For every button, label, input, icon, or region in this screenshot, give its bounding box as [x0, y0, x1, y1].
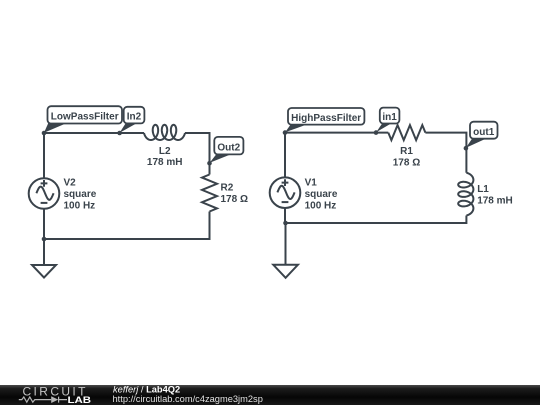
svg-text:LowPassFilter: LowPassFilter — [51, 112, 119, 123]
footer bar — [0, 385, 540, 405]
svg-text:kefferj / Lab4Q2: kefferj / Lab4Q2 — [113, 384, 180, 394]
junction dot Out2 node — [207, 161, 212, 166]
junction dot left top-left node — [42, 131, 47, 136]
junction dot out1 node — [464, 146, 469, 151]
svg-text:out1: out1 — [473, 127, 495, 138]
inductor L2 — [144, 125, 185, 168]
voltage source V2 — [29, 177, 97, 211]
svg-text:Out2: Out2 — [217, 142, 240, 153]
wire V1 bottom lead — [284, 208, 286, 223]
node in1 label — [376, 108, 399, 133]
inductor L1 — [458, 173, 513, 216]
svg-text:V1: V1 — [305, 177, 318, 188]
svg-text:178 mH: 178 mH — [147, 157, 183, 168]
svg-text:100 Hz: 100 Hz — [305, 200, 337, 211]
node Out2 label — [210, 137, 244, 163]
svg-text:LAB: LAB — [68, 395, 92, 405]
ground right — [273, 265, 298, 278]
svg-text:In2: In2 — [127, 112, 142, 123]
resistor R1 — [388, 125, 425, 168]
svg-text:V2: V2 — [64, 177, 77, 188]
svg-text:100 Hz: 100 Hz — [64, 200, 96, 211]
svg-text:HighPassFilter: HighPassFilter — [291, 113, 361, 124]
wire ground stem left — [43, 239, 45, 265]
junction dot in1 node — [374, 130, 379, 135]
svg-text:L2: L2 — [159, 146, 171, 157]
wire V2 bottom lead — [43, 209, 45, 239]
wire V1 top lead — [284, 133, 286, 178]
svg-text:square: square — [305, 189, 338, 200]
svg-text:R1: R1 — [400, 146, 413, 157]
junction dot right bottom node — [283, 221, 288, 226]
node HighPassFilter label — [285, 108, 364, 132]
svg-text:in1: in1 — [382, 112, 397, 123]
voltage source V1 — [270, 177, 338, 211]
wire top-left segment V1 to R1 (right circuit) — [285, 132, 388, 134]
wire L2 to top-right corner and down to R2 — [185, 133, 210, 175]
svg-text:178 Ω: 178 Ω — [393, 157, 420, 168]
svg-text:178 Ω: 178 Ω — [221, 194, 248, 205]
svg-text:R2: R2 — [221, 183, 234, 194]
wire V2 top lead — [43, 133, 45, 178]
junction dot right top-left node — [283, 130, 288, 135]
ground left — [32, 265, 56, 278]
svg-text:L1: L1 — [477, 184, 489, 195]
svg-text:square: square — [64, 189, 97, 200]
CircuitLab logo: resistor-diode squiggle — [19, 397, 67, 403]
wire L1 bottom lead to bottom wire — [285, 216, 466, 224]
node LowPassFilter label — [44, 106, 122, 133]
wire top-left segment V2 to L2 (left circuit) — [44, 132, 144, 134]
junction dot In2 node — [117, 131, 122, 136]
svg-text:http://circuitlab.com/c4zagme3: http://circuitlab.com/c4zagme3jm2sp — [113, 394, 263, 404]
wire R1 to top-right corner and down to L1 — [425, 133, 466, 173]
resistor R2 — [202, 175, 248, 212]
node In2 label — [120, 107, 145, 133]
wire ground stem right — [285, 223, 287, 265]
svg-text:178 mH: 178 mH — [477, 195, 513, 206]
wire R2 bottom to bottom-left corner — [44, 212, 210, 240]
node out1 label — [466, 122, 498, 148]
junction dot left bottom node — [42, 237, 47, 242]
